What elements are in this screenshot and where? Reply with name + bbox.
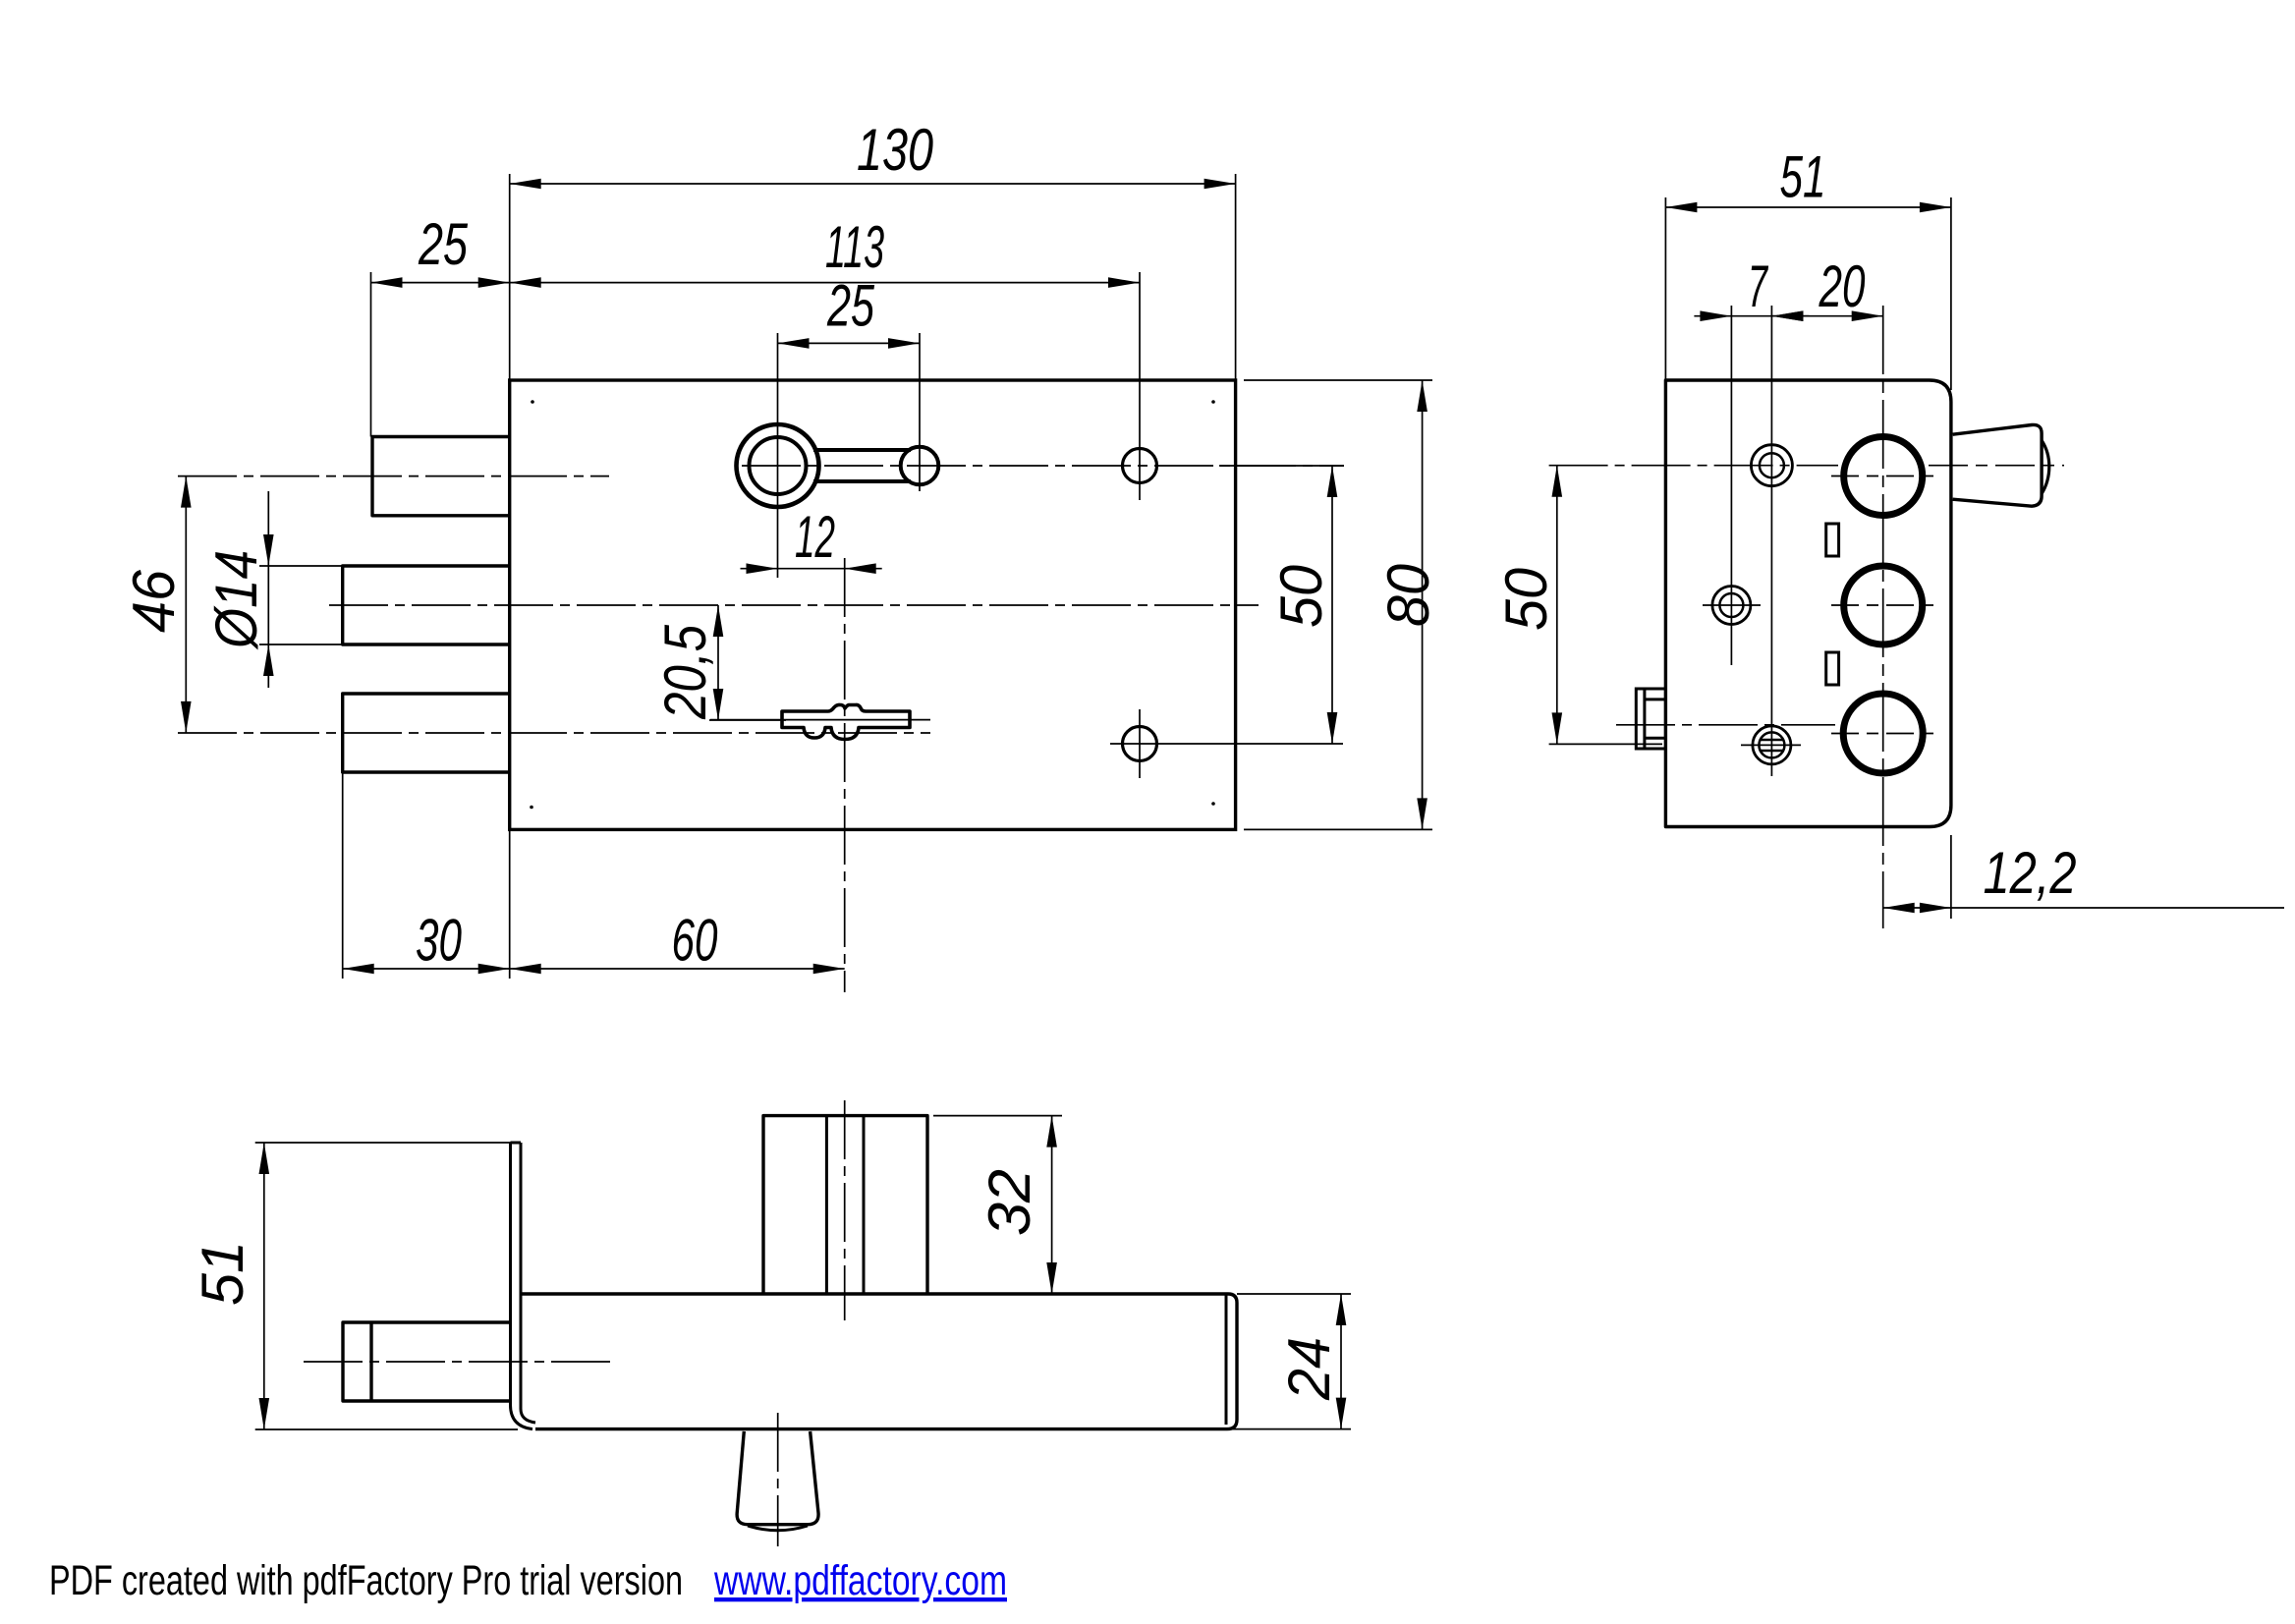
svg-text:50: 50 bbox=[1268, 565, 1334, 628]
svg-text:www.pdffactory.com: www.pdffactory.com bbox=[713, 1557, 1007, 1604]
svg-text:51: 51 bbox=[190, 1241, 255, 1306]
svg-text:51: 51 bbox=[1780, 144, 1826, 210]
svg-text:12,2: 12,2 bbox=[1984, 840, 2077, 906]
svg-text:25: 25 bbox=[418, 211, 468, 277]
svg-text:25: 25 bbox=[826, 273, 874, 339]
svg-text:Ø14: Ø14 bbox=[203, 550, 269, 650]
svg-text:30: 30 bbox=[416, 908, 462, 974]
svg-text:32: 32 bbox=[977, 1169, 1042, 1236]
svg-text:113: 113 bbox=[825, 214, 884, 280]
svg-text:7: 7 bbox=[1748, 253, 1769, 319]
svg-text:20: 20 bbox=[1819, 253, 1866, 319]
svg-text:130: 130 bbox=[857, 117, 933, 183]
svg-text:20,5: 20,5 bbox=[652, 624, 718, 719]
svg-text:46: 46 bbox=[121, 569, 187, 633]
svg-text:12: 12 bbox=[795, 504, 835, 570]
svg-text:PDF created with pdfFactory Pr: PDF created with pdfFactory Pro trial ve… bbox=[49, 1557, 683, 1604]
svg-text:50: 50 bbox=[1493, 568, 1559, 631]
svg-text:80: 80 bbox=[1375, 564, 1441, 627]
svg-text:60: 60 bbox=[672, 908, 718, 974]
svg-text:24: 24 bbox=[1276, 1337, 1342, 1401]
